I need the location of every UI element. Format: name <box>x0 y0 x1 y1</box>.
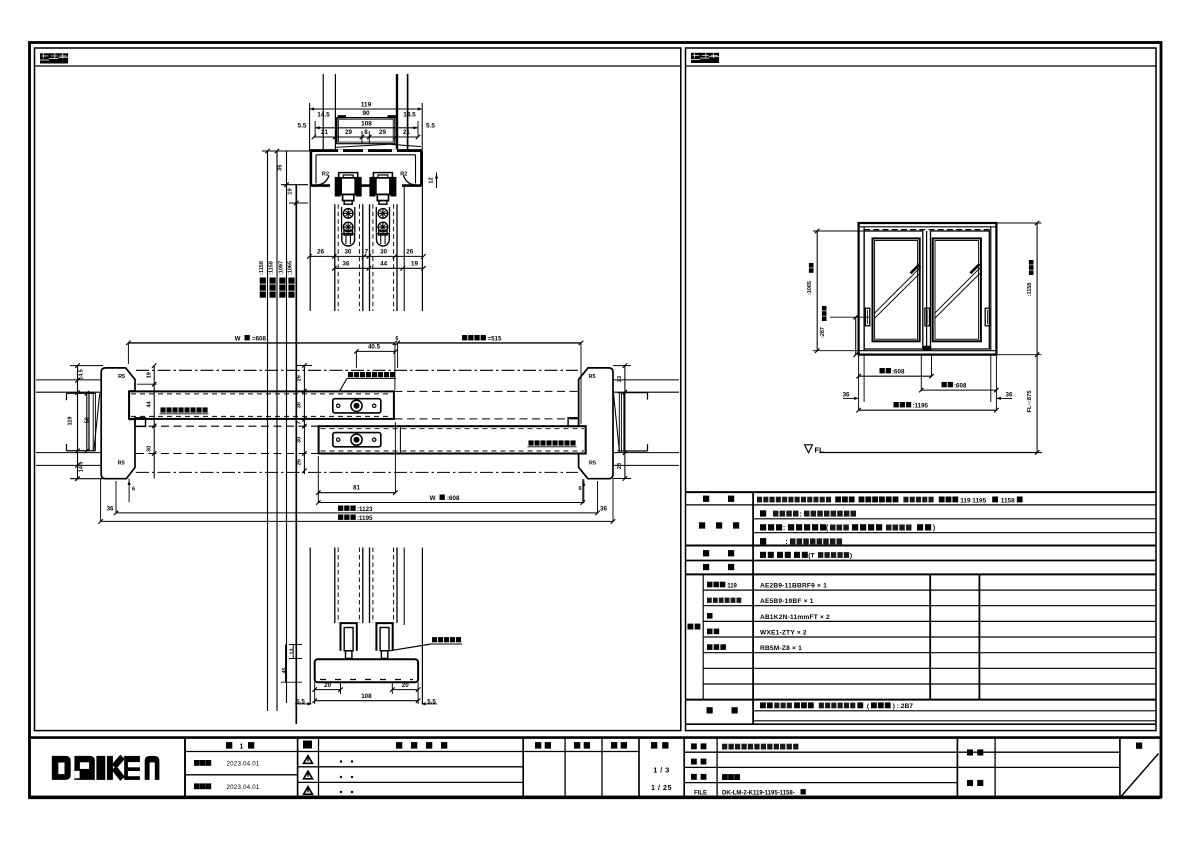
FL line <box>819 452 1042 454</box>
floor sill profile <box>315 659 418 682</box>
section label biko <box>707 707 738 713</box>
sanmenzu text <box>722 774 740 780</box>
part row2 label <box>707 598 741 603</box>
height label tobiradaka 1065 <box>288 261 295 298</box>
plan dim 26b rotated <box>297 459 303 465</box>
right jamb profile <box>568 368 613 479</box>
label tobira-haba left <box>880 368 905 375</box>
R5 label right top <box>588 374 595 380</box>
svg-text:30: 30 <box>297 402 303 408</box>
revision warn triangle 1 <box>304 756 313 764</box>
svg-text:26: 26 <box>297 375 303 381</box>
right door panel column lower <box>370 548 405 626</box>
row label irogara <box>703 564 734 570</box>
stud channel left <box>67 393 100 451</box>
R5 label right bottom <box>589 461 596 467</box>
page label <box>1136 743 1142 749</box>
rear door handle plate <box>333 399 381 413</box>
dim W608 front door <box>316 479 585 505</box>
door stop cap label right <box>528 440 577 446</box>
head housing diagonal <box>336 144 421 147</box>
R5 label left top <box>118 374 125 380</box>
wall lines above head frame <box>323 74 407 151</box>
svg-text:26: 26 <box>406 248 413 255</box>
svg-text:81: 81 <box>353 485 360 492</box>
svg-text:DK-LM-2-K119-1195-1158-: DK-LM-2-K119-1195-1158- <box>722 790 795 796</box>
row label hikite <box>703 550 734 556</box>
dim 5.5 bottom left <box>295 699 312 706</box>
svg-text:7: 7 <box>365 248 369 255</box>
label shomenzu (front view) <box>691 53 719 63</box>
svg-text:30: 30 <box>344 248 351 255</box>
dim wakugai-haba 1195 <box>856 355 998 413</box>
dim tobira-daka 1065 <box>813 229 864 353</box>
biko content <box>760 702 913 710</box>
part row1 label <box>707 582 738 590</box>
svg-text:29: 29 <box>379 129 386 136</box>
svg-text:1158: 1158 <box>1001 497 1015 504</box>
title block top border <box>28 736 1160 739</box>
svg-text:44: 44 <box>380 260 387 267</box>
kenzu header <box>574 742 590 749</box>
svg-text:50: 50 <box>85 417 91 423</box>
svg-text:13: 13 <box>290 649 296 655</box>
part row2 content <box>760 598 814 605</box>
dim row 36-44-19 <box>332 260 426 270</box>
handle center <box>925 308 930 326</box>
front right door window <box>933 238 981 341</box>
svg-text::287: :287 <box>820 327 826 338</box>
kenmei label <box>967 749 983 755</box>
plan dim 44 rotated <box>146 401 152 408</box>
sekou label <box>967 780 983 786</box>
file number text <box>722 789 806 796</box>
handle left door <box>865 308 869 326</box>
revision dots row1 <box>340 760 353 762</box>
dim wakugai 1123 <box>107 481 608 515</box>
svg-text:R5: R5 <box>589 461 596 467</box>
svg-text::1065: :1065 <box>807 281 813 295</box>
svg-text:5.5: 5.5 <box>298 122 307 129</box>
R5 label left bottom <box>118 461 125 467</box>
svg-text:90: 90 <box>362 110 370 117</box>
svg-text::1195: :1195 <box>357 515 373 522</box>
svg-text:FILE: FILE <box>694 790 707 796</box>
dim 5.5 bottom right <box>421 699 437 706</box>
plan dim 7 rotated <box>297 421 303 424</box>
svg-text:2023.04.01: 2023.04.01 <box>227 784 260 791</box>
svg-text::608: :608 <box>447 495 460 502</box>
part row5 content <box>760 645 802 652</box>
dim yuko-kaiko 515 <box>395 336 583 424</box>
dim 108 bottom <box>312 693 420 703</box>
svg-text:): ) <box>933 525 935 532</box>
stud channel right <box>614 393 648 452</box>
dim 6 right <box>578 479 585 503</box>
svg-text:23: 23 <box>617 463 623 469</box>
svg-text:R5: R5 <box>118 461 125 467</box>
door stop cap label left <box>160 407 209 413</box>
head track housing <box>336 118 395 144</box>
svg-text:12: 12 <box>429 177 435 183</box>
hinban label <box>691 759 706 765</box>
shiage content 2 <box>760 524 935 532</box>
svg-text:=608: =608 <box>252 335 266 342</box>
row label keishiki <box>703 496 734 502</box>
svg-text:5.5: 5.5 <box>426 122 435 129</box>
part row1 content <box>760 583 827 590</box>
plan dim 30 rotated2 <box>146 446 152 452</box>
svg-text:1: 1 <box>240 744 244 751</box>
series name text <box>722 744 798 750</box>
plan dim 26a rotated <box>297 375 303 381</box>
dim 19 rotated <box>288 188 294 195</box>
part row3 content <box>760 614 830 621</box>
part row3 label <box>707 613 713 619</box>
plan left dim lines <box>70 363 103 481</box>
label danmenzu (section view) <box>40 53 68 63</box>
svg-text:40.5: 40.5 <box>368 344 381 351</box>
svg-text:): ) <box>850 553 852 560</box>
guide pin label <box>390 637 463 651</box>
dim 90 with hanger bolts <box>317 110 416 118</box>
svg-text:6: 6 <box>132 487 135 493</box>
plan dim line 19-44-30 <box>137 363 157 478</box>
dim 108 <box>298 120 436 137</box>
shiage content 1 <box>760 510 856 518</box>
svg-text:8: 8 <box>364 129 368 136</box>
plan dim 23 bottom rotated <box>617 463 623 469</box>
track center dash lines <box>136 370 578 472</box>
dim 36 right front <box>991 355 1013 402</box>
svg-text:21: 21 <box>321 129 328 136</box>
svg-text:R2: R2 <box>400 172 407 178</box>
meeting stile floor guide <box>923 346 931 351</box>
svg-text:36: 36 <box>843 392 850 399</box>
dim 35 rotated <box>277 164 283 171</box>
dim 20 left <box>312 682 342 704</box>
shounin header <box>535 742 551 749</box>
hikite content <box>760 552 852 560</box>
svg-text:45: 45 <box>282 668 288 674</box>
svg-text:35: 35 <box>277 164 283 171</box>
kaitei-rireki header <box>396 742 447 749</box>
svg-text:WXE1-ZTY × 2: WXE1-ZTY × 2 <box>760 630 807 637</box>
svg-text::1123: :1123 <box>357 506 373 513</box>
plan dim 30a rotated <box>297 402 303 408</box>
spec table grid <box>686 492 1157 724</box>
svg-text:7: 7 <box>297 421 303 424</box>
svg-text:44: 44 <box>146 401 152 408</box>
meeting stile note <box>340 372 397 391</box>
center meeting stile line <box>926 231 928 349</box>
height label sowakudaka 1158 <box>259 261 266 298</box>
DAIKEN logo <box>52 756 160 780</box>
part row5 label <box>707 644 726 650</box>
dim 36 left front <box>843 355 864 402</box>
part row4 content <box>760 630 807 637</box>
svg-text:19: 19 <box>146 372 152 378</box>
svg-text:26: 26 <box>297 459 303 465</box>
label FL 875 <box>1027 390 1033 413</box>
svg-text:20: 20 <box>324 682 331 689</box>
dim wakugai 1195 <box>98 479 615 524</box>
svg-text::1097: :1097 <box>278 261 284 275</box>
dim tobira-haba 608 right <box>919 355 999 393</box>
front left door <box>864 231 923 349</box>
label wakugai-daka 1158 <box>1027 260 1033 296</box>
svg-text:AB1K2N-11mmFT × 2: AB1K2N-11mmFT × 2 <box>760 614 830 621</box>
rear door panel plan <box>129 391 394 419</box>
svg-text:20: 20 <box>402 682 409 689</box>
svg-text:W: W <box>430 495 436 502</box>
kaitei date row <box>194 783 260 791</box>
svg-text:6: 6 <box>395 336 398 342</box>
dim wakugai 1195 text <box>338 515 373 522</box>
revision warn triangle 2 <box>304 771 313 779</box>
row label shiage <box>699 522 739 528</box>
svg-text:30: 30 <box>380 248 387 255</box>
svg-text:36: 36 <box>343 260 350 267</box>
sakusei header <box>611 742 627 749</box>
label hikite-daka 287 <box>820 306 826 338</box>
svg-text:19: 19 <box>411 260 418 267</box>
front view head dashed line <box>864 229 991 231</box>
svg-text:119: 119 <box>68 416 74 425</box>
front track dashed continuation <box>136 426 318 453</box>
hanger roller right <box>370 173 395 205</box>
label tobira-haba right <box>942 382 967 389</box>
plan vertical dim line center <box>296 363 312 474</box>
svg-text::1195: :1195 <box>913 402 929 409</box>
svg-text::608: :608 <box>954 382 967 389</box>
svg-text:1 / 25: 1 / 25 <box>651 783 672 792</box>
svg-text:30: 30 <box>297 437 303 443</box>
dim wakugai-daka 1158 <box>996 221 1041 455</box>
height dim lines <box>262 149 310 724</box>
dim 6 left <box>128 479 136 503</box>
svg-text:23: 23 <box>617 376 623 382</box>
height label wakuuchidaka 1097 <box>278 261 285 298</box>
left jamb profile <box>101 368 145 479</box>
plan dim 30b rotated <box>297 437 303 443</box>
dim 40.5 <box>354 343 398 368</box>
wall lines right of jamb <box>613 380 679 466</box>
plan dim 14.5 top rotated <box>78 369 84 380</box>
left view header line <box>35 65 681 67</box>
svg-text:14.5: 14.5 <box>78 369 84 380</box>
dim wakugai 1123 text <box>338 506 373 513</box>
R2 label right <box>400 172 407 178</box>
label tobira-daka 1065 <box>807 263 813 295</box>
svg-text:36: 36 <box>107 505 114 512</box>
svg-text:36: 36 <box>1006 392 1013 399</box>
plan dim 50 rotated <box>85 417 91 423</box>
dim 81 <box>316 422 398 503</box>
dim 13 rotated <box>289 645 302 659</box>
svg-text:R2: R2 <box>322 172 329 178</box>
head frame profile <box>311 151 421 186</box>
door top rail screws left <box>342 207 355 246</box>
glass diagonals right <box>935 264 981 319</box>
title block grid <box>28 738 1160 798</box>
section label hinban <box>688 624 701 630</box>
svg-text:14.5: 14.5 <box>403 112 416 119</box>
dim hikite-daka 287 <box>830 315 869 357</box>
svg-text:30: 30 <box>146 446 152 452</box>
dim W608 rear door <box>126 341 397 390</box>
svg-text::: : <box>785 539 787 546</box>
dim 21-29-8-29-21 <box>312 129 421 143</box>
plan right dim line <box>613 363 631 480</box>
svg-text:14.5: 14.5 <box>78 462 84 473</box>
FL mark <box>805 445 825 455</box>
right view box <box>686 48 1157 731</box>
wall lines left of jamb <box>36 380 101 466</box>
front left door window <box>873 238 920 341</box>
svg-text::: : <box>783 525 785 532</box>
left door panel column lower <box>335 548 363 624</box>
guide foot left <box>341 623 357 658</box>
front view frame outer <box>859 223 997 355</box>
svg-text:21: 21 <box>403 129 410 136</box>
svg-text::1158: :1158 <box>1027 283 1033 297</box>
dim row 26-30-7-30-26 <box>307 248 425 258</box>
zumei label <box>691 774 706 780</box>
svg-text:26: 26 <box>317 248 324 255</box>
svg-text:FL~:875: FL~:875 <box>1027 390 1033 413</box>
dim yuko-kaiko text <box>462 335 502 342</box>
dim 119 top <box>310 102 423 151</box>
svg-text:119: 119 <box>727 583 737 589</box>
svg-text:119 1195: 119 1195 <box>960 497 986 504</box>
scale 1/3 <box>653 766 670 775</box>
svg-text:108: 108 <box>361 120 372 127</box>
plan dim 119 rotated <box>68 416 74 425</box>
svg-text:1 / 3: 1 / 3 <box>653 766 670 775</box>
dim W608 front text <box>430 495 460 502</box>
dim 12 track <box>429 173 439 189</box>
R2 label left <box>322 172 329 178</box>
svg-text::1158: :1158 <box>259 261 265 275</box>
glass diagonals left <box>874 264 921 319</box>
svg-text:RB5M-Z8 × 1: RB5M-Z8 × 1 <box>760 645 802 652</box>
svg-text:36: 36 <box>600 505 607 512</box>
meisho label <box>691 743 706 749</box>
page diagonal <box>1121 754 1159 797</box>
front door handle plate <box>333 433 381 447</box>
svg-text:R5: R5 <box>118 374 125 380</box>
hanger roller left <box>336 173 361 205</box>
svg-text::608: :608 <box>892 368 905 375</box>
svg-text::: : <box>799 511 801 518</box>
dim 20 right <box>390 682 420 704</box>
revision warn triangle 3 <box>304 787 313 795</box>
label wakugai-haba 1195 <box>894 402 929 409</box>
svg-text:AE2B9-11BBRF9 × 1: AE2B9-11BBRF9 × 1 <box>760 583 827 590</box>
door top rail screws right <box>376 207 389 246</box>
svg-text:) : 2B7: ) : 2B7 <box>893 703 913 710</box>
FILE label <box>694 790 707 796</box>
plan dim 14.5 bottom rotated <box>78 462 84 473</box>
dim W608 rear text <box>235 335 267 342</box>
front door panel plan <box>319 426 586 453</box>
left door panel column upper <box>335 204 363 311</box>
svg-text:W: W <box>235 335 241 342</box>
svg-text:6: 6 <box>578 486 581 492</box>
svg-text:2023.04.01: 2023.04.01 <box>227 761 260 768</box>
svg-text:14.5: 14.5 <box>317 112 330 119</box>
svg-text:(T: (T <box>808 553 815 560</box>
right door panel column upper <box>370 186 405 311</box>
height label wakugaidaka 1158 <box>269 261 276 298</box>
svg-text::1158: :1158 <box>269 261 275 275</box>
shiage content 3 <box>760 538 842 546</box>
svg-text:=515: =515 <box>488 335 502 342</box>
left view box <box>35 48 681 731</box>
svg-text:19: 19 <box>288 188 294 195</box>
guide foot right <box>376 623 392 658</box>
svg-text:119: 119 <box>361 102 372 109</box>
revision dots row2 <box>340 776 353 778</box>
svg-text:AE5B9-19BF × 1: AE5B9-19BF × 1 <box>760 598 814 605</box>
head frame top edge <box>310 149 423 152</box>
scale 1/25 <box>651 783 672 792</box>
right view header line <box>686 65 1157 67</box>
revision dots row3 <box>340 791 353 793</box>
svg-text:108: 108 <box>361 693 372 700</box>
keishiki content <box>757 497 1023 505</box>
dim 45 rotated <box>281 645 302 683</box>
No column header <box>303 741 312 749</box>
part row4 label <box>707 629 719 635</box>
shukushaku header <box>651 742 669 749</box>
dim tobira-haba 608 left <box>856 355 933 379</box>
handle right door <box>985 308 989 326</box>
svg-text:5.5: 5.5 <box>427 699 436 706</box>
svg-text:FL: FL <box>815 445 825 454</box>
rev header dai-1-han <box>226 742 254 750</box>
plan dim 19 rotated2 <box>146 372 152 378</box>
svg-text:R5: R5 <box>588 374 595 380</box>
svg-text::1065: :1065 <box>288 261 294 275</box>
front right door <box>931 231 990 349</box>
svg-text:5.5: 5.5 <box>296 699 305 706</box>
seitei date row <box>194 760 260 768</box>
svg-text:29: 29 <box>345 129 352 136</box>
front view frame inner lines <box>859 227 997 351</box>
rear track dashed continuation <box>395 391 579 419</box>
wall face lines vertical section <box>310 151 422 704</box>
plan dim 23 top rotated <box>617 376 623 382</box>
